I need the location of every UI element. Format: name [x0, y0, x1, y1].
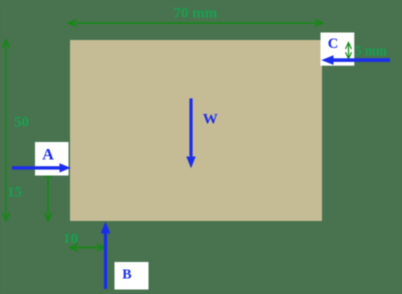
svg-text:C: C	[328, 36, 338, 52]
svg-text:15: 15	[7, 185, 22, 201]
svg-text:5 mm: 5 mm	[355, 43, 387, 59]
svg-text:A: A	[42, 146, 54, 163]
svg-text:50: 50	[14, 115, 29, 131]
svg-text:W: W	[203, 111, 218, 127]
svg-text:10: 10	[63, 231, 78, 247]
svg-text:70 mm: 70 mm	[174, 6, 218, 22]
svg-text:B: B	[122, 267, 131, 282]
